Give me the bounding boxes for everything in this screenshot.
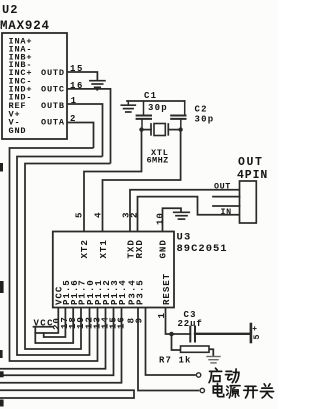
wire U2 OUTD pin 15: [67, 72, 97, 81]
scan mark 5: [0, 400, 4, 407]
wire U3 P3.5 pin 9 to start terminal: [146, 308, 196, 376]
wire U3 pin 15 to left edge: [0, 308, 114, 376]
node dot crystal left: [139, 127, 143, 131]
wire C3 to +5 supply: [195, 333, 250, 335]
wire U3 pin 17: [44, 308, 66, 338]
wire bottom outer 1: [0, 390, 134, 398]
svg-text:OUTA: OUTA: [41, 118, 65, 128]
capacitor C2: [184, 101, 186, 115]
wire U3 RESET pin 1: [166, 308, 172, 335]
scan mark 2: [0, 281, 4, 293]
scan mark 4: [0, 371, 4, 377]
wire VCC branch down: [34, 333, 36, 343]
wire VCC to U3 pin 20: [35, 308, 58, 334]
terminal circle start: [196, 373, 200, 377]
svg-text:2: 2: [128, 212, 139, 218]
U2 right pin labels OUTD OUTC OUTB OUTA: [41, 68, 65, 128]
crystal XTL plates: [150, 124, 152, 135]
wire U3 pin 16 to left edge: [0, 308, 122, 383]
wire U3 GND pin 10 to ground: [163, 208, 182, 231]
svg-text:C1: C1: [144, 91, 157, 101]
svg-text:U2: U2: [2, 3, 18, 17]
U3 bottom pin numbers: [51, 312, 167, 330]
svg-text:XT2: XT2: [79, 239, 90, 258]
wire crystal right to U3 XT1 pin 4: [103, 130, 181, 232]
svg-text:4: 4: [92, 212, 103, 218]
stray dot: [96, 89, 98, 91]
svg-text:10: 10: [155, 212, 166, 225]
svg-text:89C2051: 89C2051: [177, 243, 228, 255]
label dianyuan kaiguan (power switch): [213, 384, 223, 397]
wire U3 pin 18: [35, 308, 73, 344]
node dot reset: [169, 332, 174, 337]
crystal XTL leads: [142, 129, 152, 131]
svg-text:5: 5: [73, 212, 84, 218]
wire U2 OUTC pin 16 to node C: [67, 89, 111, 164]
svg-text:MAX924: MAX924: [0, 19, 50, 33]
label qidong (start): [209, 368, 222, 382]
connector stub pin3: [213, 205, 240, 207]
ground at U3 GND: [174, 211, 190, 213]
IC U3 89C2051 body: [53, 232, 174, 308]
wire oscillator top rail: [127, 100, 185, 102]
ground at C1: [127, 101, 129, 105]
wire U3 pin 14 to left edge: [0, 308, 106, 369]
svg-text:RXD: RXD: [134, 239, 145, 258]
U3 top pin numbers 5 4 3 2 10: [73, 212, 165, 225]
svg-text:OUT: OUT: [238, 156, 264, 169]
node dot crystal right: [178, 127, 182, 131]
U3 top pin labels XT2 XT1 TXD RXD GND: [79, 239, 168, 258]
wire stub pin17 branch: [43, 333, 45, 337]
wire U2 OUTB pin 1 to node B: [67, 104, 103, 157]
svg-text:R7 1k: R7 1k: [159, 356, 192, 366]
svg-text:GND: GND: [9, 126, 27, 136]
crystal XTL body: [154, 124, 165, 136]
svg-text:C2: C2: [195, 105, 208, 115]
wire node C to U3 P1.7 pin 19: [25, 164, 111, 350]
connector stub pin2: [213, 196, 240, 198]
svg-text:GND: GND: [158, 239, 169, 258]
ground at OUTD pin15: [90, 80, 105, 82]
svg-text:5: 5: [253, 335, 262, 340]
scan mark 1: [0, 163, 3, 172]
wire U2 OUTA pin 2 to node A: [67, 123, 94, 149]
U3 bottom pin labels VCC P1.x P3.x RESET: [54, 273, 173, 305]
U2 left pin labels INA+..GND: [9, 37, 33, 137]
wire node B to U3 P1.0 pin 12: [17, 157, 103, 356]
terminal circle power switch: [200, 388, 204, 392]
wire crystal left to U3 XT2 pin 5: [84, 130, 142, 232]
svg-text:OUTD: OUTD: [41, 68, 65, 78]
op-amp U2 MAX924 body: [2, 33, 67, 139]
ground at R7 dashed: [207, 356, 220, 358]
+5 supply bar: [250, 324, 253, 342]
wire U3 P3.4 pin 8 to power switch terminal: [138, 308, 199, 391]
svg-text:6MHZ: 6MHZ: [147, 156, 169, 166]
scan mark 3: [0, 350, 3, 358]
svg-text:+: +: [252, 325, 257, 334]
wire node A to U3 P1.1 pin 13: [10, 148, 98, 361]
svg-text:30p: 30p: [195, 114, 215, 124]
resistor R7 body: [181, 346, 210, 352]
svg-text:XT1: XT1: [98, 239, 109, 258]
wire TXD pin 3 to OUT: [130, 190, 240, 232]
wire R7 to ground: [209, 349, 213, 356]
svg-text:OUTB: OUTB: [41, 101, 65, 111]
svg-text:RESET: RESET: [161, 273, 172, 305]
svg-text:4PIN: 4PIN: [237, 169, 268, 182]
svg-text:OUTC: OUTC: [41, 85, 65, 95]
wire reset node to C3: [172, 333, 191, 335]
svg-text:30p: 30p: [148, 103, 168, 113]
capacitor C3: [189, 327, 191, 342]
connector J1 4PIN body: [240, 181, 257, 223]
wire RXD pin 2 to IN: [138, 197, 240, 232]
VCC underline: [34, 326, 53, 328]
capacitor C1: [143, 101, 145, 115]
svg-text:U3: U3: [177, 232, 192, 244]
wire reset node to R7: [172, 334, 181, 350]
svg-text:P3.5: P3.5: [135, 279, 146, 305]
